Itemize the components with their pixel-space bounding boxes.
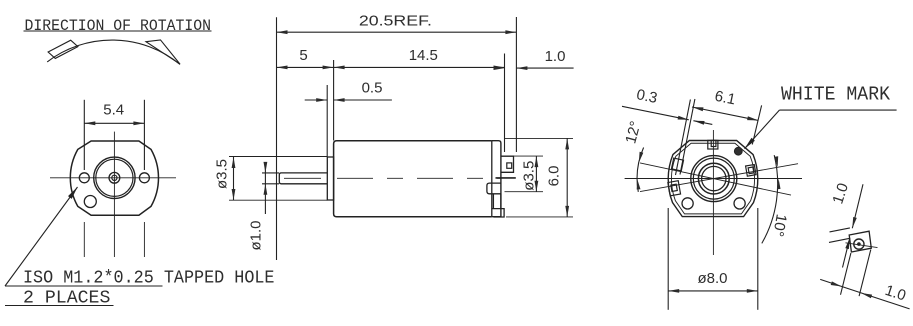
front view centerline vertical <box>113 132 115 257</box>
svg-text:0.5: 0.5 <box>362 80 383 97</box>
front boss ring outer <box>94 157 135 198</box>
rear horizontal centerline <box>625 178 802 180</box>
svg-text:20.5REF.: 20.5REF. <box>359 12 432 29</box>
rear top tab <box>708 140 718 149</box>
svg-text:14.5: 14.5 <box>409 47 438 64</box>
rear outline inner <box>671 143 754 214</box>
white mark dot <box>734 147 742 155</box>
dim 0.5 <box>305 80 392 157</box>
svg-text:ø8.0: ø8.0 <box>697 270 727 287</box>
can-endbell seam <box>491 141 493 217</box>
svg-text:WHITE MARK: WHITE MARK <box>781 84 891 106</box>
leader to tapped hole <box>5 187 275 309</box>
detail hole circle <box>854 239 864 249</box>
svg-text:1.0: 1.0 <box>545 48 566 65</box>
hole centerline left below body <box>83 222 85 257</box>
middle terminal tab edge-on <box>496 177 516 179</box>
svg-text:12°: 12° <box>622 119 644 145</box>
svg-text:ø1.0: ø1.0 <box>248 220 265 250</box>
dim dia3.5 right <box>505 156 544 192</box>
detail dim 1.0 lower <box>820 250 909 309</box>
rotation arrow head <box>146 40 180 64</box>
shaft <box>279 173 327 184</box>
rear vertical centerline <box>712 130 714 255</box>
front boss ring inner <box>96 159 133 196</box>
tapped hole left <box>79 173 89 183</box>
rotation arrow flag <box>48 40 78 58</box>
upper-left tab <box>671 158 683 171</box>
front view centerline horizontal <box>50 177 176 179</box>
dim dia8.0 <box>668 208 758 310</box>
dashed centerline <box>337 177 501 179</box>
hole centerline right below body <box>143 222 145 257</box>
svg-text:ISO M1.2*0.25 TAPPED HOLE: ISO M1.2*0.25 TAPPED HOLE <box>23 269 275 289</box>
front view outline <box>70 141 158 215</box>
offset hole <box>84 196 96 208</box>
svg-text:ø3.5: ø3.5 <box>521 161 538 191</box>
svg-text:0.3: 0.3 <box>635 86 659 107</box>
rear hole left <box>682 198 693 209</box>
detail dim 1.0 upper <box>829 181 863 267</box>
dim 6.0 <box>504 138 573 217</box>
front shaft center dot <box>112 175 117 180</box>
lower neck <box>491 194 504 217</box>
title DIRECTION OF ROTATION <box>24 17 212 35</box>
angular dim 12deg <box>622 119 644 192</box>
rear hole right <box>734 198 745 209</box>
angled line 12deg <box>640 163 791 195</box>
endbell outline <box>492 141 501 217</box>
motor can body <box>334 141 492 217</box>
svg-text:DIRECTION OF ROTATION: DIRECTION OF ROTATION <box>25 17 212 35</box>
dimension 5.4 <box>84 100 144 170</box>
dim 6.1 <box>692 88 762 145</box>
label WHITE MARK <box>745 84 897 149</box>
tapped hole right <box>139 173 149 183</box>
angular dim 10deg <box>762 155 790 243</box>
left terminal <box>668 181 681 196</box>
svg-text:5: 5 <box>299 47 307 64</box>
dim 20.5REF <box>277 12 517 260</box>
left brush tab (rounded) <box>487 183 501 194</box>
svg-text:2 PLACES: 2 PLACES <box>23 289 110 309</box>
dim dia1.0 shaft <box>248 162 280 251</box>
terminal square hole <box>507 163 512 168</box>
svg-text:1.0: 1.0 <box>829 181 852 206</box>
dim 0.3 <box>622 86 712 175</box>
rotation arrow arc <box>47 40 180 64</box>
svg-text:10°: 10° <box>769 213 790 238</box>
dim 1.0 right <box>494 48 574 70</box>
collar bushing <box>327 157 333 200</box>
svg-text:6.0: 6.0 <box>546 166 563 187</box>
front shaft circle <box>109 172 120 183</box>
detail midline <box>846 243 878 248</box>
svg-text:ø3.5: ø3.5 <box>214 159 231 189</box>
svg-text:6.1: 6.1 <box>713 88 737 109</box>
angled line 10deg <box>640 164 798 192</box>
rear outline outer <box>668 141 758 217</box>
dim 5 <box>277 47 334 141</box>
detail terminal square <box>849 231 871 252</box>
svg-text:5.4: 5.4 <box>103 102 124 119</box>
dim 14.5 <box>334 47 505 152</box>
terminal block top right <box>501 156 514 172</box>
shaft mid line <box>284 177 321 179</box>
dim dia3.5 left <box>214 157 328 201</box>
rear bearing circles <box>691 156 737 202</box>
right terminal <box>746 165 756 177</box>
